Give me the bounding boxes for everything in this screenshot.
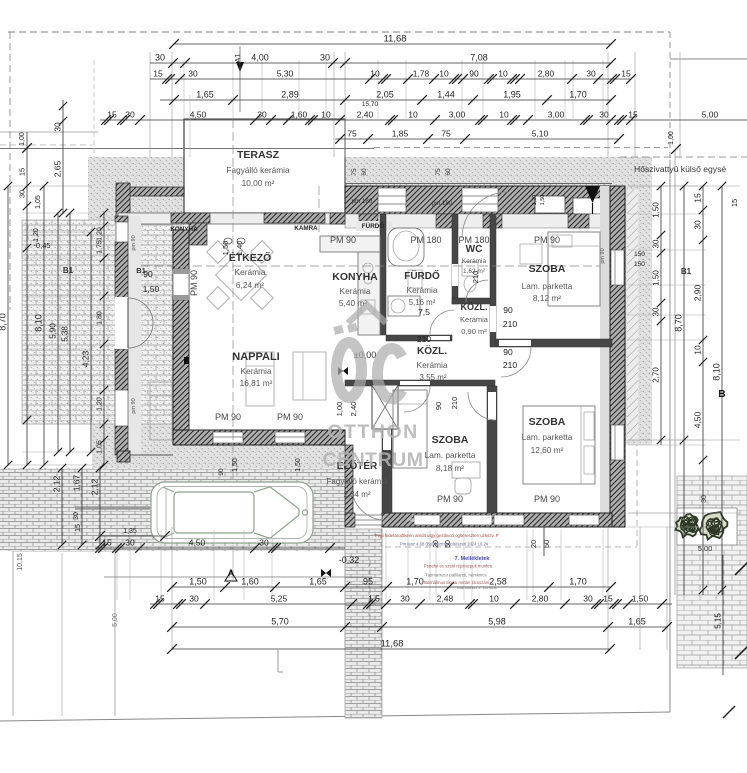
svg-text:KÖZL.: KÖZL.: [461, 302, 488, 312]
svg-text:30: 30: [583, 594, 593, 604]
svg-text:15: 15: [102, 538, 112, 548]
svg-text:1,70: 1,70: [569, 90, 587, 100]
svg-text:1,20: 1,20: [33, 228, 40, 242]
svg-text:3,00: 3,00: [548, 110, 565, 120]
svg-text:75: 75: [441, 129, 451, 139]
svg-text:75: 75: [351, 168, 358, 176]
svg-text:KÖZL.: KÖZL.: [417, 344, 447, 357]
svg-text:30: 30: [586, 69, 596, 79]
svg-text:1,50: 1,50: [652, 270, 661, 286]
svg-text:B: B: [718, 389, 725, 400]
svg-text:7. Mellékletek: 7. Mellékletek: [455, 556, 490, 562]
svg-text:Kerámia: Kerámia: [417, 360, 448, 370]
svg-text:2,48: 2,48: [437, 594, 454, 604]
svg-text:1,50: 1,50: [143, 284, 160, 294]
svg-text:210: 210: [471, 271, 480, 284]
svg-text:Fagyálló kerámia: Fagyálló kerámia: [327, 477, 388, 486]
svg-text:30: 30: [73, 512, 80, 520]
svg-text:60: 60: [445, 168, 452, 176]
svg-text:30: 30: [400, 594, 410, 604]
svg-text:8,18 m²: 8,18 m²: [436, 463, 464, 473]
svg-text:2,65: 2,65: [53, 160, 63, 177]
svg-text:90: 90: [503, 347, 513, 357]
svg-text:Lam. parketta: Lam. parketta: [522, 432, 573, 442]
svg-text:11,68: 11,68: [383, 34, 406, 45]
svg-text:50: 50: [445, 540, 452, 548]
svg-text:Fejti hidefarodtkeen amdit utg: Fejti hidefarodtkeen amdit utgy gezdivcd…: [375, 533, 498, 538]
svg-text:2,40: 2,40: [349, 402, 358, 417]
svg-text:PM 180: PM 180: [458, 235, 489, 245]
svg-text:Hőszivattyú külső egysé: Hőszivattyú külső egysé: [634, 164, 726, 174]
svg-text:1,78: 1,78: [413, 69, 430, 79]
svg-text:95: 95: [363, 577, 373, 587]
svg-text:Lam. parketta: Lam. parketta: [425, 450, 476, 460]
svg-text:12,60 m²: 12,60 m²: [531, 445, 564, 455]
svg-text:5,00: 5,00: [702, 110, 719, 120]
svg-text:1,95: 1,95: [503, 90, 521, 100]
svg-text:15: 15: [603, 594, 613, 604]
svg-text:KONYHA: KONYHA: [332, 271, 378, 283]
svg-text:KAMRA: KAMRA: [294, 225, 318, 232]
svg-text:WC: WC: [466, 244, 483, 255]
svg-text:1,40: 1,40: [235, 241, 244, 256]
svg-text:clop wlw: clop wlw: [407, 517, 425, 522]
svg-text:CENTRUM: CENTRUM: [323, 449, 424, 471]
svg-text:60: 60: [361, 168, 368, 176]
svg-text:5,90: 5,90: [49, 323, 58, 339]
svg-text:1,05: 1,05: [35, 195, 42, 209]
svg-text:OTTHON: OTTHON: [327, 421, 418, 443]
svg-text:Fagyálló kerámia: Fagyálló kerámia: [226, 165, 290, 175]
svg-text:1,65: 1,65: [628, 617, 646, 627]
svg-text:1,60: 1,60: [291, 110, 308, 120]
svg-text:PM 90: PM 90: [189, 270, 199, 296]
svg-text:2,80: 2,80: [538, 69, 555, 79]
svg-text:Kerámia: Kerámia: [407, 285, 438, 295]
svg-text:PM 90: PM 90: [534, 494, 560, 504]
svg-text:30: 30: [189, 594, 199, 604]
svg-text:50: 50: [542, 540, 551, 548]
svg-text:75: 75: [435, 168, 442, 176]
svg-text:11,68: 11,68: [380, 639, 403, 650]
svg-text:1,65: 1,65: [196, 90, 214, 100]
svg-text:10: 10: [498, 69, 508, 79]
svg-text:90: 90: [469, 69, 479, 79]
svg-text:1,50: 1,50: [652, 202, 661, 218]
svg-text:1,67: 1,67: [72, 474, 82, 491]
svg-text:30: 30: [53, 122, 63, 132]
svg-text:FÜRDŐ: FÜRDŐ: [362, 221, 384, 230]
svg-text:4,50: 4,50: [190, 110, 207, 120]
svg-text:1,50: 1,50: [295, 458, 302, 472]
svg-text:15: 15: [730, 199, 739, 207]
svg-text:2,89: 2,89: [281, 90, 299, 100]
svg-text:150: 150: [634, 261, 645, 268]
svg-text:8,10: 8,10: [34, 314, 44, 332]
svg-text:Kerámia: Kerámia: [235, 267, 266, 277]
svg-text:SZOBA: SZOBA: [529, 263, 566, 275]
svg-text:8,12 m²: 8,12 m²: [533, 293, 561, 303]
svg-text:PM 180: PM 180: [410, 235, 441, 245]
svg-text:6,24 m²: 6,24 m²: [236, 280, 264, 290]
svg-text:Mwrthunizz 1. consths: Mwrthunizz 1. consths: [457, 585, 497, 590]
svg-text:1,70: 1,70: [569, 577, 587, 587]
svg-text:210: 210: [450, 397, 459, 410]
svg-text:SZOBA: SZOBA: [432, 434, 469, 446]
svg-text:15: 15: [75, 524, 82, 532]
svg-text:5,70: 5,70: [271, 617, 289, 627]
svg-text:10,15: 10,15: [17, 553, 24, 571]
svg-text:pm 90: pm 90: [600, 248, 606, 263]
svg-text:B1: B1: [63, 266, 74, 275]
svg-text:8,70: 8,70: [674, 314, 684, 332]
svg-text:20: 20: [433, 540, 440, 548]
svg-text:Kerámia: Kerámia: [340, 286, 371, 296]
svg-text:10: 10: [499, 110, 509, 120]
svg-text:15: 15: [693, 193, 703, 203]
svg-text:15: 15: [621, 69, 631, 79]
svg-text:5,25: 5,25: [271, 594, 288, 604]
svg-text:30: 30: [652, 239, 661, 248]
svg-text:pm 90: pm 90: [131, 235, 137, 250]
svg-text:10: 10: [370, 69, 380, 79]
svg-text:15: 15: [107, 110, 117, 120]
svg-text:0,90 m²: 0,90 m²: [461, 327, 487, 336]
svg-text:5,00: 5,00: [698, 544, 713, 553]
svg-text:1,44: 1,44: [437, 90, 455, 100]
svg-text:30: 30: [125, 110, 135, 120]
svg-text:7,5: 7,5: [418, 307, 430, 317]
svg-text:3,00: 3,00: [449, 110, 466, 120]
svg-text:Kerámia: Kerámia: [460, 315, 489, 324]
svg-text:30: 30: [320, 53, 330, 63]
svg-text:2,05: 2,05: [376, 90, 394, 100]
svg-text:10: 10: [408, 110, 418, 120]
svg-text:2,34 m²: 2,34 m²: [343, 490, 370, 499]
svg-text:210: 210: [417, 334, 431, 344]
svg-text:90: 90: [434, 402, 443, 410]
svg-text:4,50: 4,50: [693, 411, 703, 428]
svg-text:SZOBA: SZOBA: [529, 416, 566, 428]
svg-text:1,00: 1,00: [335, 402, 344, 417]
svg-text:1,60: 1,60: [241, 577, 259, 587]
svg-text:pm 180: pm 180: [352, 198, 373, 205]
svg-text:pm 180: pm 180: [432, 200, 453, 207]
svg-text:2,70: 2,70: [652, 367, 661, 383]
svg-text:A1: A1: [233, 53, 242, 62]
svg-text:TERASZ: TERASZ: [237, 149, 280, 161]
svg-text:Pstrefst és szetil répziszpek: Pstrefst és szetil répziszpek munkra: [424, 564, 493, 569]
svg-text:15: 15: [155, 594, 165, 604]
svg-text:Kerámia: Kerámia: [241, 366, 272, 376]
svg-text:20: 20: [529, 540, 538, 548]
svg-text:1,50: 1,50: [221, 241, 230, 256]
svg-text:2,80: 2,80: [532, 594, 549, 604]
svg-text:PM 90: PM 90: [437, 494, 463, 504]
svg-text:5,00: 5,00: [112, 613, 119, 627]
svg-text:1,00: 1,00: [668, 131, 675, 145]
svg-text:5,30: 5,30: [277, 69, 294, 79]
svg-text:10: 10: [321, 110, 331, 120]
svg-text:1,50: 1,50: [540, 195, 546, 206]
svg-text:30: 30: [701, 495, 708, 503]
svg-text:30: 30: [125, 538, 135, 548]
svg-text:10: 10: [489, 594, 499, 604]
svg-text:PM 90: PM 90: [215, 412, 241, 422]
svg-text:FÜRDŐ: FÜRDŐ: [404, 269, 440, 282]
svg-text:1,75: 1,75: [97, 240, 104, 254]
svg-text:3,55 m²: 3,55 m²: [419, 373, 446, 382]
svg-text:2,90: 2,90: [693, 284, 703, 301]
svg-text:10: 10: [439, 69, 449, 79]
svg-text:90: 90: [218, 468, 225, 476]
svg-text:-0,32: -0,32: [339, 555, 360, 565]
svg-text:5,98: 5,98: [488, 617, 506, 627]
svg-text:5,16 m²: 5,16 m²: [409, 298, 436, 307]
svg-text:30: 30: [599, 110, 609, 120]
svg-text:Lam. parketta: Lam. parketta: [522, 281, 573, 291]
svg-text:B1: B1: [136, 266, 146, 275]
svg-text:16,81 m²: 16,81 m²: [240, 378, 273, 388]
svg-text:1,20: 1,20: [532, 195, 538, 206]
svg-text:8,10: 8,10: [712, 363, 722, 381]
svg-text:15: 15: [18, 168, 27, 176]
svg-text:PM 90: PM 90: [277, 412, 303, 422]
svg-text:7,08: 7,08: [470, 53, 488, 63]
svg-text:1,50: 1,50: [189, 577, 207, 587]
svg-text:2,40: 2,40: [357, 110, 374, 120]
svg-text:8,70: 8,70: [0, 313, 8, 331]
svg-text:1,35: 1,35: [123, 528, 137, 535]
svg-text:210: 210: [503, 360, 517, 370]
svg-text:1,05: 1,05: [97, 440, 104, 454]
svg-text:1,80: 1,80: [97, 311, 104, 325]
svg-text:150: 150: [634, 251, 645, 258]
svg-text:30: 30: [259, 538, 269, 548]
svg-text:1,70: 1,70: [406, 577, 424, 587]
svg-text:30: 30: [693, 220, 703, 230]
svg-text:4,50: 4,50: [189, 538, 206, 548]
svg-text:15: 15: [153, 69, 163, 79]
svg-text:1,5: 1,5: [368, 594, 380, 604]
svg-text:A: A: [228, 568, 235, 578]
svg-text:1,85: 1,85: [392, 129, 409, 139]
svg-text:15: 15: [628, 110, 638, 120]
svg-text:2,12: 2,12: [90, 478, 100, 495]
svg-text:5,10: 5,10: [532, 129, 549, 139]
svg-text:15,70: 15,70: [362, 101, 379, 108]
svg-text:Tabrnamzur patlilarzti, némkin: Tabrnamzur patlilarzti, némkincs: [425, 573, 486, 578]
svg-text:Kerámia: Kerámia: [462, 258, 487, 265]
svg-text:10,00 m²: 10,00 m²: [242, 178, 275, 188]
svg-text:5,38: 5,38: [61, 326, 70, 342]
svg-text:1,20: 1,20: [97, 397, 104, 411]
svg-text:75: 75: [347, 129, 357, 139]
svg-text:PM 90: PM 90: [330, 235, 356, 245]
svg-text:5,15: 5,15: [714, 613, 723, 629]
svg-text:1,20: 1,20: [97, 227, 104, 241]
svg-text:10: 10: [693, 345, 703, 355]
svg-text:4,23: 4,23: [81, 350, 91, 367]
svg-text:1,00: 1,00: [19, 132, 26, 146]
svg-text:210: 210: [503, 319, 517, 329]
svg-text:90: 90: [503, 305, 513, 315]
svg-text:30: 30: [18, 190, 27, 198]
svg-text:2,12: 2,12: [52, 475, 62, 492]
svg-text:1,50: 1,50: [232, 458, 239, 472]
svg-text:30: 30: [257, 110, 267, 120]
svg-text:1,50: 1,50: [632, 594, 649, 604]
svg-text:30: 30: [188, 69, 198, 79]
svg-text:pm 90: pm 90: [131, 398, 137, 413]
svg-text:NAPPALI: NAPPALI: [232, 351, 279, 363]
svg-text:PM 90: PM 90: [534, 235, 560, 245]
svg-text:1,65: 1,65: [309, 577, 327, 587]
svg-text:4,00: 4,00: [251, 53, 269, 63]
svg-text:B1: B1: [681, 267, 692, 276]
svg-text:30: 30: [155, 53, 165, 63]
svg-text:30: 30: [652, 307, 661, 316]
